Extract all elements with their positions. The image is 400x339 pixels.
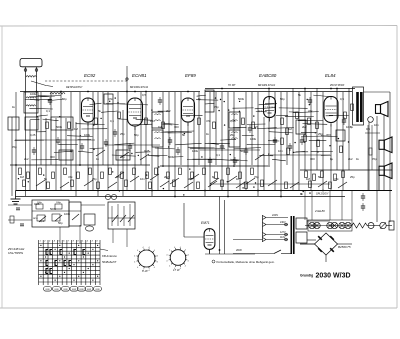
svg-text:0,1: 0,1 [216, 153, 220, 157]
svg-text:UKW: UKW [45, 289, 49, 291]
svg-text:2×EL80: 2×EL80 [314, 209, 325, 213]
svg-text:220V: 220V [272, 213, 278, 217]
svg-text:25p: 25p [230, 133, 235, 137]
svg-text:25p: 25p [318, 132, 323, 136]
svg-text:0,5: 0,5 [254, 125, 258, 129]
svg-text:300: 300 [174, 125, 179, 129]
svg-text:0,25: 0,25 [144, 149, 150, 153]
svg-text:1M: 1M [306, 177, 311, 181]
svg-text:8µ: 8µ [212, 175, 216, 179]
svg-text:100k: 100k [64, 212, 71, 216]
svg-text:4: 4 [134, 256, 135, 258]
svg-text:100k: 100k [84, 133, 91, 137]
svg-text:50p: 50p [62, 97, 67, 101]
svg-text:300: 300 [310, 157, 315, 161]
svg-text:B250C75: B250C75 [338, 245, 351, 249]
svg-text:500k: 500k [50, 207, 57, 211]
svg-text:0,1: 0,1 [46, 109, 50, 113]
svg-text:70p: 70p [372, 157, 377, 161]
svg-text:1M: 1M [74, 127, 79, 131]
svg-text:47k: 47k [334, 177, 339, 181]
svg-text:10n: 10n [150, 119, 155, 123]
svg-text:1M: 1M [20, 175, 25, 179]
svg-text:UKW: UKW [87, 289, 91, 291]
svg-text:SPLODGY: SPLODGY [316, 192, 329, 196]
svg-text:EM71: EM71 [201, 221, 210, 225]
svg-text:127V: 127V [280, 231, 286, 234]
svg-text:2k2: 2k2 [164, 175, 169, 179]
svg-text:2k2: 2k2 [348, 157, 353, 161]
svg-text:4: 4 [149, 247, 150, 249]
svg-text:UKW: UKW [54, 289, 58, 291]
svg-text:70p: 70p [12, 145, 17, 149]
svg-text:4: 4 [169, 265, 170, 267]
svg-text:5038elleNT: 5038elleNT [102, 260, 117, 264]
svg-text:25p: 25p [350, 175, 355, 179]
svg-text:4: 4 [174, 247, 175, 249]
svg-text:ECH81: ECH81 [132, 73, 147, 78]
svg-text:100k: 100k [30, 92, 37, 96]
svg-text:UKW: UKW [72, 289, 76, 291]
svg-text:1M: 1M [288, 127, 293, 131]
svg-text:BR.DRS.STLLN: BR.DRS.STLLN [258, 84, 275, 87]
svg-text:4: 4 [188, 255, 189, 257]
svg-text:Grundig: Grundig [300, 274, 313, 278]
svg-text:50p: 50p [58, 221, 63, 225]
svg-text:4: 4 [154, 250, 155, 252]
svg-text:0,5: 0,5 [366, 127, 370, 131]
svg-text:4: 4 [166, 255, 167, 257]
svg-text:20W: 20W [236, 248, 242, 252]
svg-text:Kürzentelltelle, Meßwerte ohne: Kürzentelltelle, Meßwerte ohne Meßgerät … [217, 260, 276, 264]
svg-text:UKW: UKW [95, 289, 99, 291]
svg-text:47k: 47k [108, 97, 113, 101]
svg-text:4: 4 [188, 260, 189, 262]
svg-text:4: 4 [180, 247, 181, 249]
svg-text:10n: 10n [374, 123, 379, 127]
svg-text:110V: 110V [280, 236, 286, 239]
svg-text:UKW: UKW [63, 289, 67, 291]
svg-text:KB Antenne: KB Antenne [102, 254, 117, 258]
svg-text:300: 300 [50, 155, 55, 159]
svg-text:25p: 25p [120, 132, 125, 136]
svg-text:C-W: C-W [142, 269, 148, 273]
svg-text:50p: 50p [240, 149, 245, 153]
svg-text:300: 300 [326, 133, 331, 137]
svg-text:NPO: NPO [33, 218, 38, 220]
svg-text:4: 4 [143, 247, 144, 249]
svg-text:0,1: 0,1 [40, 219, 44, 223]
svg-text:4: 4 [134, 262, 135, 264]
svg-text:4: 4 [185, 265, 186, 267]
svg-text:4: 4 [169, 250, 170, 252]
svg-text:47k: 47k [308, 109, 313, 113]
svg-text:2k2: 2k2 [166, 109, 171, 113]
svg-text:TK.WT: TK.WT [228, 84, 236, 87]
svg-text:UKW: UKW [79, 289, 83, 291]
svg-text:10n: 10n [278, 149, 283, 153]
svg-text:240V: 240V [280, 221, 286, 224]
svg-text:100k: 100k [192, 149, 199, 153]
svg-text:4: 4 [185, 250, 186, 252]
svg-text:EABC80: EABC80 [259, 73, 277, 78]
svg-text:25p: 25p [92, 177, 97, 181]
svg-text:70p: 70p [120, 155, 125, 159]
svg-text:0,1: 0,1 [110, 119, 114, 123]
svg-text:10n: 10n [140, 177, 145, 181]
svg-text:RETRVLWXNY: RETRVLWXNY [66, 86, 83, 89]
svg-text:4: 4 [149, 270, 150, 272]
svg-text:17 W: 17 W [173, 268, 180, 272]
svg-text:4: 4 [157, 262, 158, 264]
svg-text:500k: 500k [56, 125, 63, 129]
svg-text:300: 300 [188, 177, 193, 181]
svg-text:8µ: 8µ [330, 157, 334, 161]
svg-text:0,5: 0,5 [142, 93, 146, 97]
svg-text:70p: 70p [214, 105, 219, 109]
svg-text:0,25: 0,25 [34, 202, 40, 206]
svg-text:1M: 1M [158, 125, 163, 129]
svg-text:500k: 500k [238, 97, 245, 101]
svg-text:50p: 50p [280, 97, 285, 101]
svg-text:8µ: 8µ [350, 125, 354, 129]
svg-text:0,5: 0,5 [340, 97, 344, 101]
svg-text:4: 4 [137, 267, 138, 269]
svg-text:70p: 70p [254, 175, 259, 179]
svg-text:4: 4 [157, 256, 158, 258]
svg-text:4: 4 [154, 267, 155, 269]
svg-text:EL84: EL84 [325, 73, 336, 78]
svg-text:±NL/TIPPS: ±NL/TIPPS [8, 251, 23, 255]
svg-text:EC92: EC92 [84, 73, 96, 78]
svg-text:100k: 100k [250, 137, 257, 141]
svg-text:47k: 47k [68, 175, 73, 179]
svg-text:BR.DWG.STNJA: BR.DWG.STNJA [130, 86, 148, 89]
svg-text:180p: 180p [56, 202, 62, 204]
svg-text:4: 4 [180, 268, 181, 270]
svg-text:0,5: 0,5 [116, 175, 120, 179]
svg-text:47k: 47k [206, 119, 211, 123]
svg-text:8µ: 8µ [198, 97, 202, 101]
svg-text:2k2: 2k2 [302, 125, 307, 129]
svg-text:2030 W/3D: 2030 W/3D [316, 273, 351, 280]
svg-text:4: 4 [166, 260, 167, 262]
svg-text:2k2: 2k2 [24, 157, 29, 161]
svg-text:0,1: 0,1 [258, 109, 262, 113]
svg-text:EF89: EF89 [185, 73, 196, 78]
svg-text:8µ: 8µ [70, 149, 74, 153]
svg-text:500k: 500k [168, 155, 175, 159]
svg-text:ZW.NT.PFRX: ZW.NT.PFRX [329, 84, 345, 87]
svg-text:50p: 50p [134, 133, 139, 137]
svg-text:4: 4 [137, 250, 138, 252]
svg-text:0,25: 0,25 [30, 133, 36, 137]
svg-text:0,25: 0,25 [230, 119, 236, 123]
